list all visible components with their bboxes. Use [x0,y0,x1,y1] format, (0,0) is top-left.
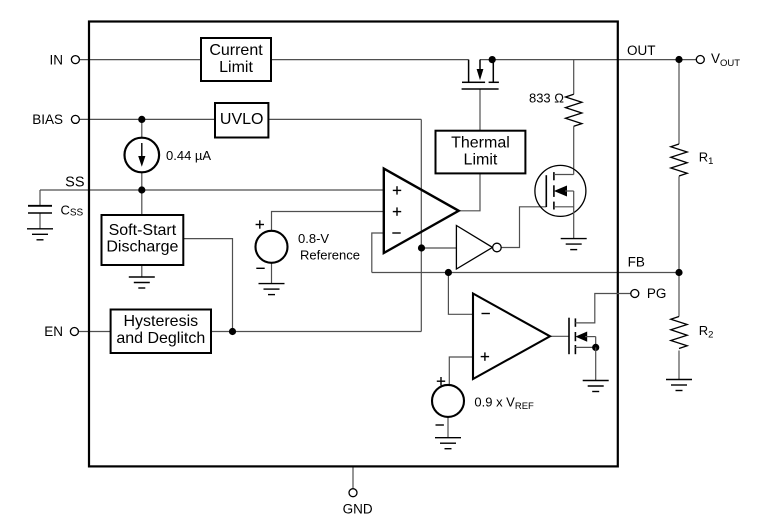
wire BIAS junction down to current source [141,119,143,139]
pin BIAS [71,115,79,123]
minus sign of 0.8-V reference [256,267,264,269]
pin IN [71,56,79,64]
svg-text:VOUT: VOUT [711,51,740,69]
pin GND [349,489,357,497]
wire 0.9xVREF source to ground [447,416,449,437]
svg-text:R1: R1 [699,149,714,167]
wire Thermal Limit up to pass FET gate [479,89,481,131]
junction BIAS / current source [138,116,145,123]
block Hysteresis and Deglitch [111,310,211,354]
svg-text:Hysteresis: Hysteresis [123,313,198,330]
svg-text:0.9 x VREF: 0.9 x VREF [474,395,534,413]
wire error amp - input to FB line [372,233,384,273]
wire comparator output to PG FET gate [550,335,569,337]
ground for 0.9xVREF [435,438,461,449]
svg-text:and Deglitch: and Deglitch [116,330,205,347]
block Thermal Limit [436,131,526,174]
wire 0.9xVREF to comparator + input [449,357,473,386]
op-amp error amplifier [384,169,459,253]
svg-text:SS: SS [65,175,84,191]
IC outline box [89,22,618,467]
wire OUT line (pass FET drain to OUT pin) [480,59,696,61]
svg-text:GND: GND [343,502,373,517]
ground for CSS [27,229,53,240]
buffer amplifier [456,226,492,270]
junction FB / R1 / R2 [675,269,682,276]
svg-text:Reference: Reference [300,248,360,263]
capacitor CSS [28,206,52,213]
comparator power good [473,294,550,380]
discharge FET circle [535,165,586,216]
discharge FET gate bar [545,175,547,207]
svg-text:IN: IN [50,52,64,67]
current source 0.44 uA [125,138,160,173]
discharge FET source to ground wire [573,191,575,239]
wire R2 to ground [678,351,680,380]
wire FB node to R2 [678,273,680,317]
plus sign of 0.8-V reference [256,220,264,228]
plus sign comparator input [481,352,489,360]
discharge FET source lead [554,206,574,208]
block UVLO [215,103,268,138]
wire Soft-Start Discharge box to ground [141,265,143,277]
pin VOUT [696,56,704,64]
svg-text:0.8-V: 0.8-V [298,231,329,246]
wire Soft-Start Discharge output to EN net [183,239,232,332]
wire BIAS line (BIAS pin through UVLO) [79,118,421,120]
voltage source 0.9xVREF [432,385,464,417]
wire IN line (IN pin to pass FET source) [79,59,468,61]
wire FB to comparator - input [448,273,473,315]
PG FET source to ground wire [595,347,597,380]
resistor 833 ohm [566,94,582,126]
svg-text:Current: Current [209,42,263,59]
svg-text:Soft-Start: Soft-Start [109,222,177,239]
svg-text:0.44 µA: 0.44 µA [166,148,211,163]
pass FET Q1 gate bar [462,88,499,90]
plus sign error amp input 1 [393,186,401,194]
wire UVLO output vertical down to EN net [420,119,422,331]
junction pass FET drain / OUT line [489,56,496,63]
wire SS to CSS capacitor [39,190,41,205]
pass FET Q1 source stub [462,60,475,83]
wire 833 ohm resistor to discharge FET drain [573,126,575,174]
ground for PG FET [583,381,609,392]
block Current Limit [201,38,271,81]
pass FET Q1 body arrow stub [475,60,485,83]
ground for Soft-Start Discharge [129,277,155,288]
resistor R2 [671,317,687,349]
wire 0.8-V reference to error amp + input [272,212,384,233]
PG FET source lead [575,346,595,348]
wire EN line (EN pin through Hysteresis box) [78,331,421,333]
wire OUT line down to 833 ohm resistor [573,60,575,95]
resistor R1 [671,144,687,176]
svg-text:Limit: Limit [219,59,253,76]
pin EN [70,328,78,336]
svg-text:FB: FB [628,255,645,270]
junction buffer input on EN net [418,244,425,251]
minus sign comparator input [482,313,490,315]
PG FET channel segments [574,318,576,354]
buffer output bubble [493,243,502,252]
wire 0.8-V reference to ground [271,262,273,284]
wire SS line to error amp + input [40,189,384,191]
ground for discharge FET [561,239,587,250]
svg-text:OUT: OUT [627,43,656,58]
junction FB / comparator input [445,269,452,276]
discharge FET channel segments [553,172,555,209]
minus sign of 0.9xVREF [436,424,444,426]
discharge FET drain lead [554,174,574,176]
wire CSS capacitor to ground [39,213,41,229]
junction OUT / R1 [675,56,682,63]
wire OUT to R1 [678,60,680,145]
wire R1 to FB node [678,176,680,272]
PG FET gate bar [568,318,570,355]
wire SS junction down to Soft-Start Discharge box [141,190,143,215]
wire box bottom to GND pin [352,466,354,488]
plus sign of 0.9xVREF [437,377,445,385]
minus sign error amp input [392,232,400,234]
svg-text:Limit: Limit [464,151,498,168]
svg-text:Discharge: Discharge [106,239,178,256]
junction EN / soft-start output [229,328,236,335]
voltage source 0.8-V reference [256,231,288,263]
junction SS line [138,186,145,193]
svg-text:CSS: CSS [61,202,84,218]
pass FET Q1 drain stub [489,60,499,83]
discharge FET body arrow [554,186,574,197]
ground below R2 [666,380,692,391]
PG FET body arrow [575,332,595,348]
svg-text:833 Ω: 833 Ω [529,90,564,105]
svg-text:PG: PG [647,286,667,301]
plus sign error amp input 2 [393,207,401,215]
wire error amp output up to Thermal Limit [459,173,480,210]
wire EN net to buffer input [422,247,457,249]
pin PG [631,290,639,298]
junction PG FET source / body [592,344,599,351]
wire buffer output to discharge FET gate [501,207,546,248]
svg-text:EN: EN [44,324,63,339]
wire current source to SS line [141,171,143,190]
svg-text:Thermal: Thermal [451,135,510,152]
block Soft-Start Discharge [102,215,184,265]
svg-text:UVLO: UVLO [220,111,264,128]
PG FET drain lead to PG pin [575,294,630,323]
ground for 0.8-V reference [259,284,285,295]
wire FB line [372,272,679,274]
svg-text:R2: R2 [699,323,714,341]
svg-text:BIAS: BIAS [32,112,63,127]
